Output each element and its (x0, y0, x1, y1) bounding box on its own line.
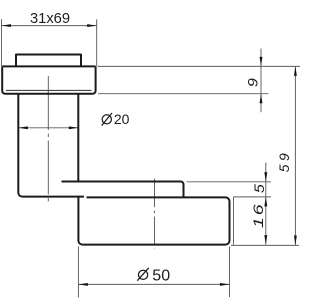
stem right side (77, 94, 79, 182)
svg-text:31x69: 31x69 (30, 11, 70, 27)
59: inside arrows (294, 66, 297, 76)
dia20 (18, 126, 28, 129)
dim line 31x69 (2, 25, 97, 27)
tongue top and right edge (62, 182, 184, 197)
dia 20 (102, 113, 112, 126)
svg-text:9: 9 (246, 78, 260, 87)
dim line dia20 (18, 127, 78, 129)
svg-text:20: 20 (114, 111, 130, 127)
ext line dia50 left (77, 246, 79, 297)
9: outside arrows (260, 57, 263, 67)
ext line dia50 right (229, 247, 231, 298)
dim line 59 (294, 67, 296, 246)
ext line plate top, to right edge (98, 65, 301, 67)
svg-text:50: 50 (152, 267, 170, 284)
wall plate lip (16, 55, 81, 67)
5/16 (264, 172, 267, 182)
dia 50 (137, 268, 148, 281)
dia50 (78, 283, 88, 286)
lower block (78, 197, 229, 244)
stem left side with bottom fillet, stem bottom face (18, 94, 84, 197)
centerline stem (47, 76, 49, 204)
ext line tongue top, right (187, 181, 272, 183)
centerline block (154, 179, 156, 249)
dim line 9 (260, 49, 262, 113)
wall plate body (2, 66, 95, 93)
tangent edge vertical right of block (233, 197, 235, 245)
ext line block bottom, right (231, 244, 299, 246)
ext line block top, right (234, 196, 272, 198)
svg-text:5: 5 (253, 183, 267, 193)
31x69 left / right (2, 24, 12, 27)
dim line dia50 (78, 283, 229, 285)
svg-text:16: 16 (250, 202, 266, 228)
ext line plate bottom, right (98, 93, 269, 95)
svg-text:59: 59 (276, 150, 292, 173)
dim line 5 and 16 (265, 163, 267, 245)
plate bottom fillet tangent edge (6, 89, 92, 91)
ext line 31x69 left (1, 19, 3, 66)
ext line 31x69 right (96, 19, 98, 66)
